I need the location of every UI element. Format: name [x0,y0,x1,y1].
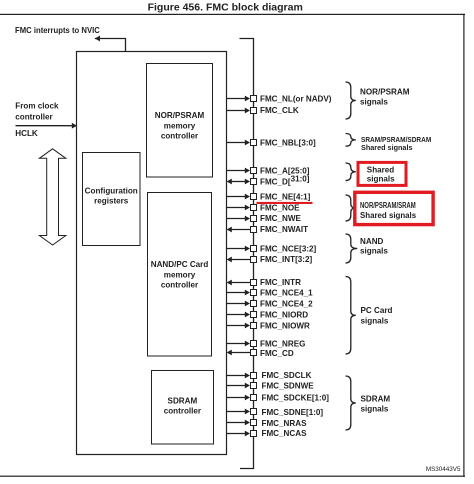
pin square: FMC_CD [250,349,257,356]
brace: NOR/PSRAM/SRAM shared signals [346,195,356,221]
block: Configuration registers [83,153,141,246]
pin square: FMC_NCE[3:2] [250,245,257,252]
svg-text:NOR/PSRAM: NOR/PSRAM [360,88,410,97]
svg-text:FMC_NWE: FMC_NWE [260,214,302,223]
wire: FMC_NL(or NADV) signal line [227,98,246,100]
pin square: FMC_NBL[3:0] [250,139,257,146]
bottom frame line [0,476,465,477]
svg-text:FMC_NOE: FMC_NOE [260,204,300,213]
red highlight box: Shared signals [358,162,406,185]
block: NAND/PC Card memory controller [148,193,212,357]
brace: PC Card signals [346,277,356,355]
svg-text:FMC_NIORD: FMC_NIORD [260,311,308,320]
svg-text:SDRAM: SDRAM [168,397,198,406]
wire: FMC_SDCKE[1:0] signal line [227,397,246,399]
block: NOR/PSRAM memory controller [147,64,213,178]
wire: FMC_NRAS signal line [227,422,246,424]
wire: HCLK clock input arrow [16,125,73,127]
svg-text:memory: memory [164,271,196,280]
brace: SRAM/PSRAM/SDRAM shared signals [346,134,356,147]
svg-text:HCLK: HCLK [15,129,38,138]
svg-text:FMC_NCAS: FMC_NCAS [262,429,308,438]
svg-text:FMC_NREG: FMC_NREG [260,339,305,348]
svg-text:NOR/PSRAM: NOR/PSRAM [155,111,205,120]
red highlight box: NOR/PSRAM/SRAM Shared signals [355,192,433,224]
svg-text:FMC_D[31:0]: FMC_D[31:0] [260,175,310,187]
svg-text:FMC_NBL[3:0]: FMC_NBL[3:0] [260,139,316,148]
wire: FMC_D signal line [231,181,245,183]
wire: FMC_NREG signal line [227,343,246,345]
wire: FMC_A[25:0] signal line [227,170,246,172]
svg-text:signals: signals [367,175,395,184]
wire: FMC_NCE[3:2] signal line [227,248,246,250]
FMC outer block [77,52,227,455]
pin square: FMC_NRAS [250,419,257,426]
svg-text:signals: signals [361,316,389,325]
pin square: FMC_NWE [250,215,257,222]
wire: FMC_INTR signal line [231,282,250,284]
bus line (pin column) [240,39,254,469]
svg-text:FMC_SDCLK: FMC_SDCLK [262,371,312,380]
svg-text:MS30443V5: MS30443V5 [426,466,461,473]
pin square: FMC_NREG [250,340,257,347]
svg-text:FMC_NCE4_1: FMC_NCE4_1 [260,289,313,298]
svg-text:FMC_SDCKE[1:0]: FMC_SDCKE[1:0] [262,394,330,403]
wire: FMC_INT[3:2] signal line [231,259,250,261]
pin square: FMC_NCAS [250,430,257,437]
pin square: FMC_NOE [250,204,257,211]
svg-text:NOR/PSRAM/SRAM: NOR/PSRAM/SRAM [360,201,416,210]
svg-text:FMC_NCE[3:2]: FMC_NCE[3:2] [260,245,317,254]
svg-text:FMC_NCE4_2: FMC_NCE4_2 [260,300,313,309]
svg-text:FMC_NIOWR: FMC_NIOWR [260,322,310,331]
pin square: FMC_NIOWR [250,322,257,329]
svg-text:memory: memory [164,122,196,131]
pin square: FMC_NE[4:1] [250,193,257,200]
wire: FMC_NE[4:1] signal line [227,196,246,198]
svg-text:registers: registers [94,196,129,205]
svg-text:NAND: NAND [360,237,384,246]
svg-text:signals: signals [360,98,388,107]
pin square: FMC_NCE4_1 [250,289,257,296]
svg-text:FMC_SDNE[1:0]: FMC_SDNE[1:0] [262,408,324,417]
pin square: FMC_SDCLK [250,372,257,379]
pin square: FMC_NWAIT [250,226,257,233]
brace: NAND signals [346,234,358,263]
brace: shared signals (A/D) [346,163,356,181]
svg-text:controller: controller [161,281,199,290]
AHB bus double-headed arrow [39,149,65,245]
right frame line [463,14,464,477]
svg-text:Shared: Shared [367,166,394,175]
wire: interrupt line to NVIC (with left arrowhead) [95,39,126,52]
block: SDRAM controller [152,371,214,445]
brace: SDRAM signals [346,376,356,430]
pin square: FMC_INT[3:2] [250,256,257,263]
svg-text:controller: controller [164,407,202,416]
svg-text:From clock: From clock [15,101,59,110]
wire: FMC_NBL[3:0] signal line [227,142,246,144]
wire: FMC_NIOWR signal line [227,325,246,327]
pin square: FMC_CLK [250,107,257,114]
wire: FMC_NCE4_1 signal line [227,292,246,294]
wire: FMC_NWAIT signal line [231,229,250,231]
svg-text:FMC interrupts to NVIC: FMC interrupts to NVIC [15,26,100,35]
svg-text:PC Card: PC Card [361,306,393,315]
red underline highlight under FMC_NE[4:1] [257,202,313,204]
brace: NOR/PSRAM signals [346,82,356,119]
svg-text:Configuration: Configuration [85,187,138,196]
pin square: FMC_A[25:0] [250,167,257,174]
wire: FMC_CLK signal line [227,110,246,112]
wire: FMC_SDNE[1:0] signal line [227,411,246,413]
svg-text:controller: controller [15,112,53,121]
svg-text:signals: signals [361,405,389,414]
pin square: FMC_NCE4_2 [250,300,257,307]
pin square: FMC_NIORD [250,311,257,318]
svg-text:signals: signals [360,247,388,256]
pin square: FMC_D [250,178,257,185]
svg-text:FMC_INT[3:2]: FMC_INT[3:2] [260,255,312,264]
pin square: FMC_NL(or NADV) [250,95,257,102]
wire: FMC_NCAS signal line [227,433,246,435]
wire: FMC_SDNWE signal line [227,385,246,387]
wire: FMC_NWE signal line [227,218,246,220]
svg-text:FMC_SDNWE: FMC_SDNWE [262,382,315,391]
wire: FMC_NIORD signal line [227,314,246,316]
svg-text:SDRAM: SDRAM [361,394,391,403]
svg-text:Shared signals: Shared signals [361,143,413,152]
pin square: FMC_SDNE[1:0] [250,408,257,415]
svg-text:FMC_INTR: FMC_INTR [260,278,301,287]
svg-text:FMC_CLK: FMC_CLK [260,106,299,115]
svg-text:NAND/PC Card: NAND/PC Card [151,260,209,269]
wire: FMC_SDCLK signal line [227,375,246,377]
svg-text:FMC_NWAIT: FMC_NWAIT [260,225,308,234]
svg-text:Shared signals: Shared signals [360,211,417,220]
svg-text:FMC_NE[4:1]: FMC_NE[4:1] [260,193,311,202]
title rule (top frame line) [0,14,465,15]
svg-text:Figure 456. FMC block diagram: Figure 456. FMC block diagram [148,2,303,14]
wire: FMC_CD signal line [231,352,250,354]
pin square: FMC_INTR [250,279,257,286]
svg-text:controller: controller [161,132,199,141]
svg-text:FMC_CD: FMC_CD [260,349,294,358]
wire: FMC_NOE signal line [227,207,246,209]
svg-text:FMC_NL(or NADV): FMC_NL(or NADV) [260,95,332,104]
wire: FMC_NCE4_2 signal line [227,303,246,305]
pin square: FMC_SDNWE [250,382,257,389]
pin square: FMC_SDCKE[1:0] [250,394,257,401]
svg-text:FMC_NRAS: FMC_NRAS [262,419,308,428]
